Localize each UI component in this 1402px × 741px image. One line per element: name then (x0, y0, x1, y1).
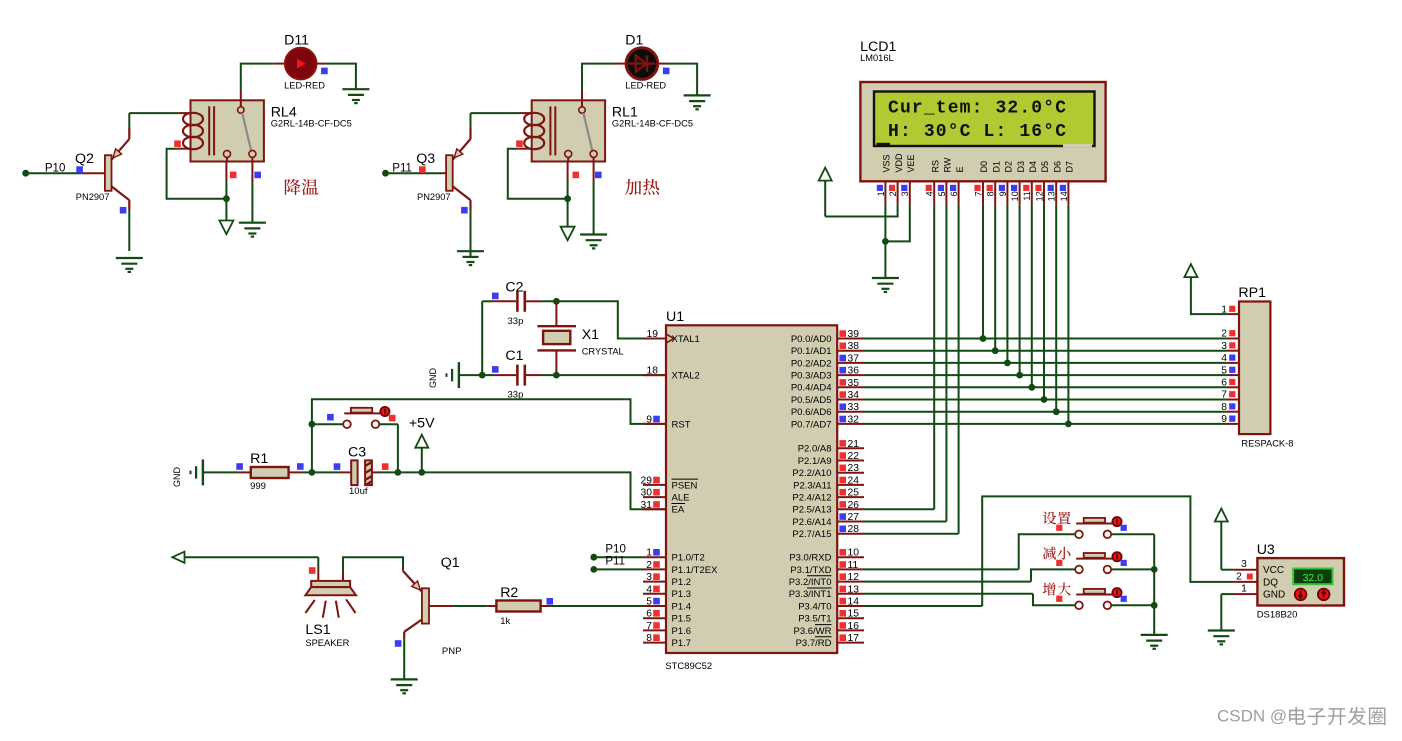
svg-text:P3.5/T1: P3.5/T1 (798, 614, 831, 625)
LS1 labels (305, 622, 349, 648)
wire RL1 contact to junction (567, 162, 569, 227)
svg-text:16: 16 (848, 621, 860, 632)
LCD1 pin 7 D0 (973, 161, 989, 205)
label 增大 (1043, 582, 1056, 595)
svg-text:GND: GND (428, 368, 438, 389)
Q3 base pin square (419, 166, 426, 173)
svg-text:DQ: DQ (1263, 577, 1278, 588)
svg-text:RS: RS (930, 160, 940, 173)
svg-text:P0.0/AD0: P0.0/AD0 (791, 334, 832, 345)
svg-text:12: 12 (1034, 191, 1044, 201)
svg-text:13: 13 (848, 584, 860, 595)
wire Q2 emitter to RL4 coil (129, 113, 190, 128)
LCD1 labels (860, 39, 896, 63)
U1 pin 8 P1.7 (643, 633, 691, 649)
node rail junction 2 (1151, 602, 1158, 609)
ground terminal GND (R1) (172, 459, 203, 487)
wire Q1 collector to ground (403, 639, 405, 680)
ground at U3 (1208, 629, 1235, 631)
wire LCD D6 down (1055, 205, 1057, 412)
svg-text:P1.6: P1.6 (672, 626, 692, 637)
wire buttons common rail (1153, 534, 1155, 635)
U1 pin 32 P0.7/AD7 (791, 414, 864, 430)
U1 pin 16 P3.6/WR (793, 621, 864, 637)
svg-text:STC89C52: STC89C52 (665, 661, 712, 672)
wire C2-left vertical (481, 301, 483, 375)
U1 pin 14 P3.4/T0 (798, 597, 864, 613)
svg-text:RESPACK-8: RESPACK-8 (1241, 439, 1293, 449)
U1 pin 4 P1.3 (643, 584, 691, 600)
U1 pin 5 P1.4 (643, 597, 691, 613)
wire R2 to U1 P1.4 (541, 605, 666, 607)
wire LCD D1 down (994, 205, 996, 351)
svg-text:3: 3 (1221, 341, 1227, 352)
wire P0.7 row (864, 423, 1227, 425)
svg-text:X1: X1 (582, 327, 599, 343)
svg-text:U3: U3 (1257, 542, 1275, 558)
wire RST stub (643, 423, 666, 425)
crystal X1 (537, 301, 576, 375)
svg-text:E: E (955, 166, 965, 172)
svg-text:D5: D5 (1040, 161, 1050, 173)
LCD1 pin 3 VEE (900, 154, 916, 204)
LCD1 pin 14 D7 (1059, 161, 1075, 205)
svg-text:10: 10 (1010, 191, 1020, 201)
wire P10 to Q2 base (26, 172, 105, 174)
svg-text:VSS: VSS (882, 154, 892, 172)
svg-text:LED-RED: LED-RED (625, 81, 666, 91)
svg-text:P1.2: P1.2 (672, 577, 692, 588)
svg-text:9: 9 (998, 191, 1008, 196)
LCD LCD1 (LM016L) body (860, 82, 1105, 181)
node D1/P0.1 junction (992, 347, 999, 354)
svg-text:38: 38 (848, 341, 860, 352)
wire P0.5 row (864, 399, 1227, 401)
U3 pin 1 GND (1233, 584, 1257, 595)
wire D1 to ground (658, 64, 697, 96)
wire GND to C1 (459, 374, 493, 376)
RP1 pin 7 (1221, 390, 1239, 401)
wire button row to RST rail (312, 399, 643, 424)
svg-text:DS18B20: DS18B20 (1257, 610, 1298, 621)
svg-text:1: 1 (876, 191, 886, 196)
svg-text:3: 3 (1241, 559, 1247, 570)
svg-text:4: 4 (646, 584, 652, 595)
svg-text:10: 10 (848, 548, 860, 559)
svg-text:11: 11 (848, 560, 859, 571)
svg-text:37: 37 (848, 353, 860, 364)
LS1 pin square (309, 567, 316, 574)
svg-text:D3: D3 (1016, 161, 1026, 173)
D1 cathode square (663, 68, 670, 75)
ground at Q3 collector (457, 250, 484, 252)
svg-text:3: 3 (900, 191, 910, 196)
svg-text:+5V: +5V (409, 416, 435, 432)
svg-text:19: 19 (647, 329, 659, 340)
U1 pin 10 P3.0/RXD (789, 548, 864, 564)
RP1 pin 9 (1221, 414, 1239, 425)
svg-text:9: 9 (646, 414, 652, 425)
power arrow (U3) (1215, 509, 1233, 570)
ground at D1 (684, 94, 711, 96)
U1 pin 35 P0.4/AD4 (791, 378, 864, 394)
RP1 pin 4 (1221, 353, 1239, 364)
svg-text:P2.3/A11: P2.3/A11 (793, 480, 831, 491)
svg-text:31: 31 (641, 500, 653, 511)
svg-text:CRYSTAL: CRYSTAL (582, 347, 624, 357)
U1 pin 38 P0.1/AD1 (791, 341, 864, 357)
U1 pin 18 XTAL2 (643, 366, 700, 382)
svg-text:7: 7 (973, 191, 983, 196)
node D2/P0.2 junction (1004, 360, 1011, 367)
wire RL4 contact to junction (225, 162, 227, 221)
svg-text:P11: P11 (605, 556, 625, 568)
RL1 NO pin square (595, 172, 602, 179)
X1 labels (582, 327, 624, 357)
wire VSS down (884, 205, 886, 278)
svg-text:26: 26 (848, 500, 860, 511)
ground under RL4 NO contact (239, 222, 266, 224)
svg-text:D6: D6 (1052, 161, 1062, 173)
svg-text:C1: C1 (505, 348, 523, 364)
watermark 电子开发圈 (1289, 707, 1306, 725)
relay RL1 labels (612, 105, 693, 129)
U1 pin 25 P2.4/A12 (792, 488, 864, 504)
LED D1 (LED-RED) (626, 48, 658, 80)
RL1 contact pin square (573, 172, 580, 179)
svg-text:3: 3 (646, 572, 652, 583)
node X1 top junction (553, 298, 560, 305)
node +5V junction (418, 469, 425, 476)
U1 pin 6 P1.5 (643, 609, 691, 625)
svg-text:5: 5 (1221, 365, 1227, 376)
wire into C2 (482, 300, 516, 302)
R1 pin squares (236, 463, 303, 470)
button 增大 (1075, 588, 1121, 609)
U1 pin 3 P1.2 (643, 572, 691, 588)
power +5V (409, 416, 435, 473)
svg-text:D2: D2 (1004, 161, 1014, 173)
LED D11 (LED-RED) (285, 48, 317, 80)
svg-text:RW: RW (943, 157, 953, 172)
wire LS1 to Q1 emitter (343, 557, 403, 581)
node X1 bottom junction (553, 372, 560, 379)
button 减小 (1075, 552, 1121, 573)
svg-text:36: 36 (848, 366, 860, 377)
D11 labels (284, 33, 325, 91)
Q3 collector pin square (461, 207, 468, 214)
svg-text:D0: D0 (979, 161, 989, 173)
svg-text:LS1: LS1 (305, 622, 330, 638)
svg-text:15: 15 (848, 609, 860, 620)
U1 pin 33 P0.6/AD6 (791, 402, 864, 418)
U1 pin 34 P0.5/AD5 (791, 390, 864, 406)
C3 squares (334, 463, 389, 470)
U1 pin 19 XTAL1 (643, 329, 700, 345)
Q2 base pin square (76, 166, 83, 173)
svg-text:5: 5 (937, 191, 947, 196)
svg-text:PN2907: PN2907 (76, 192, 110, 202)
svg-text:P0.4/AD4: P0.4/AD4 (791, 383, 832, 394)
svg-text:P2.6/A14: P2.6/A14 (792, 517, 831, 528)
wire LCD D3 down (1019, 205, 1021, 375)
svg-text:10uf: 10uf (349, 486, 368, 497)
wire Q3 emitter to RL1 coil (471, 113, 532, 128)
svg-text:30: 30 (641, 488, 653, 499)
svg-text:28: 28 (848, 524, 860, 535)
svg-text:7: 7 (1221, 390, 1227, 401)
svg-text:P2.0/A8: P2.0/A8 (798, 444, 832, 455)
C2 pin square (492, 293, 499, 300)
wire P0.0 row (864, 338, 1227, 340)
RP1 pin 3 (1221, 341, 1239, 352)
node P11 (U1 side) (590, 556, 643, 573)
svg-text:PN2907: PN2907 (417, 192, 451, 202)
C1 pin square (492, 366, 499, 373)
U1 pin 37 P0.2/AD2 (791, 353, 864, 369)
transistor Q2 (PN2907) (105, 128, 129, 210)
relay RL1 (524, 100, 605, 161)
svg-text:VDD: VDD (894, 153, 904, 173)
svg-text:GND: GND (1263, 590, 1285, 601)
svg-text:P1.4: P1.4 (672, 601, 692, 612)
svg-text:999: 999 (250, 481, 266, 492)
speaker LS1 (305, 581, 356, 618)
svg-text:ALE: ALE (672, 493, 690, 504)
svg-text:P3.4/T0: P3.4/T0 (798, 601, 831, 612)
wire U3 GND down (1221, 594, 1233, 630)
svg-text:P2.1/A9: P2.1/A9 (798, 456, 832, 467)
svg-text:6: 6 (949, 191, 959, 196)
svg-text:VCC: VCC (1263, 565, 1284, 576)
junction node under RL1 (564, 195, 571, 202)
svg-text:LM016L: LM016L (860, 53, 894, 63)
LCD1 pin 10 D3 (1010, 161, 1026, 205)
node D0/P0.0 junction (980, 335, 987, 342)
wire Q1 base to R2 (429, 605, 496, 607)
wire P0.4 row (864, 386, 1227, 388)
wire P11 to Q3 base (386, 172, 447, 174)
wire C3 to EA rail (372, 472, 666, 509)
ground under RL1 NO contact (580, 233, 607, 235)
RL4 contact pin square (230, 172, 237, 179)
capacitor C3 (10uf) (348, 445, 372, 498)
U1 pin 7 P1.6 (643, 621, 691, 637)
U1 pin 39 P0.0/AD0 (791, 329, 864, 345)
svg-text:25: 25 (848, 488, 860, 499)
wire P0.6 row (864, 411, 1227, 413)
LCD1 pin 4 RS (925, 160, 941, 205)
label 降温 (285, 179, 301, 195)
svg-text:Q3: Q3 (416, 151, 435, 167)
svg-text:C2: C2 (505, 280, 523, 296)
wire RL4 coil- to junction (167, 149, 227, 199)
node D6/P0.6 junction (1053, 408, 1060, 415)
svg-text:P3.0/RXD: P3.0/RXD (789, 553, 831, 564)
svg-text:P0.2/AD2: P0.2/AD2 (791, 358, 832, 369)
svg-text:18: 18 (647, 366, 659, 377)
U3 pin 2 DQ (1233, 571, 1257, 582)
RP1 pin 8 (1221, 402, 1239, 413)
svg-text:11: 11 (1022, 191, 1032, 200)
svg-text:35: 35 (848, 378, 860, 389)
svg-text:33p: 33p (508, 316, 524, 327)
RP1 pin 6 (1221, 378, 1239, 389)
LCD1 pin 11 D4 (1022, 161, 1038, 205)
svg-text:22: 22 (848, 451, 860, 462)
svg-text:XTAL1: XTAL1 (672, 334, 700, 345)
svg-text:23: 23 (848, 463, 860, 474)
svg-text:2: 2 (888, 191, 898, 196)
svg-text:D7: D7 (1065, 161, 1075, 173)
transistor Q3 (PN2907) (446, 128, 470, 210)
U1 pin 15 P3.5/T1 (798, 609, 864, 625)
wire P0.1 row (864, 350, 1227, 352)
node button right junction (395, 469, 402, 476)
arrow ground under RL4 (219, 221, 233, 235)
U1 pin 26 P2.5/A13 (792, 500, 864, 516)
svg-text:P2.5/A13: P2.5/A13 (792, 505, 831, 516)
node P11 (382, 162, 412, 176)
wire P0.2 row (864, 362, 1227, 364)
svg-text:21: 21 (848, 439, 860, 450)
button 设置 (1075, 517, 1121, 538)
svg-text:D1: D1 (625, 33, 643, 49)
node D5/P0.5 junction (1041, 396, 1048, 403)
svg-text:2: 2 (1221, 329, 1227, 340)
terminal arrow (speaker net) (172, 552, 184, 563)
wire RL1 common to D1 (582, 64, 626, 101)
svg-text:1k: 1k (500, 616, 510, 627)
svg-text:G2RL-14B-CF-DC5: G2RL-14B-CF-DC5 (612, 119, 693, 129)
svg-text:14: 14 (1059, 191, 1069, 201)
svg-text:P2.4/A12: P2.4/A12 (792, 493, 831, 504)
label 设置 (1043, 512, 1056, 525)
svg-text:D1: D1 (991, 161, 1001, 173)
wire RL1 NO contact to ground (593, 162, 595, 235)
svg-text:1: 1 (1221, 304, 1227, 315)
svg-text:8: 8 (646, 633, 652, 644)
svg-text:D4: D4 (1028, 161, 1038, 173)
U1 pin 1 P1.0/T2 (643, 548, 705, 564)
wire LCD D0 down (982, 205, 984, 339)
svg-text:14: 14 (848, 597, 860, 608)
node P10 (22, 162, 65, 176)
U1 pin 31 EA (641, 500, 685, 516)
wire GND to R1 (203, 471, 251, 473)
wire P3.4 to U3 DQ (864, 496, 1233, 606)
wire Q2 collector to ground (128, 210, 130, 251)
U1 pin 2 P1.1/T2EX (643, 560, 718, 576)
svg-text:6: 6 (646, 609, 652, 620)
wire P3.2 to 减小 (864, 569, 1075, 581)
LCD1 pin 1 VSS (876, 154, 892, 204)
svg-text:9: 9 (1221, 414, 1227, 425)
svg-text:17: 17 (848, 633, 860, 644)
ground at Q2 collector (116, 257, 143, 259)
svg-text:G2RL-14B-CF-DC5: G2RL-14B-CF-DC5 (271, 119, 352, 129)
node D4/P0.4 junction (1028, 384, 1035, 391)
U1 pin 23 P2.2/A10 (792, 463, 864, 479)
svg-text:P3.7/RD: P3.7/RD (796, 638, 832, 649)
U1 pin 27 P2.6/A14 (792, 512, 864, 528)
svg-text:4: 4 (925, 191, 935, 196)
svg-text:P0.7/AD7: P0.7/AD7 (791, 419, 832, 430)
增大 squares (1056, 596, 1127, 602)
svg-text:CSDN @: CSDN @ (1217, 707, 1287, 726)
wire button right down (379, 424, 398, 472)
U1 pin 13 P3.3/INT1 (789, 584, 864, 600)
node rail junction 1 (1151, 566, 1158, 573)
LCD1 pin 8 D1 (986, 161, 1002, 205)
svg-text:27: 27 (848, 512, 860, 523)
svg-text:8: 8 (1221, 402, 1227, 413)
wire VEE to VSS (885, 205, 909, 242)
Q1 labels (441, 555, 462, 657)
svg-text:XTAL2: XTAL2 (672, 371, 700, 382)
svg-text:13: 13 (1047, 191, 1057, 201)
svg-text:P0.3/AD3: P0.3/AD3 (791, 371, 832, 382)
svg-text:24: 24 (848, 475, 860, 486)
svg-text:VEE: VEE (906, 154, 916, 172)
capacitor C2 (33p) (505, 280, 524, 328)
ground at buttons (1141, 634, 1168, 636)
wire arrow to LS1 (185, 557, 319, 581)
R2 square (547, 598, 554, 605)
node D3/P0.3 junction (1016, 372, 1023, 379)
svg-text:R1: R1 (250, 451, 268, 467)
U1 pin 21 P2.0/A8 (798, 439, 864, 455)
U1 pin 36 P0.3/AD3 (791, 366, 864, 382)
svg-text:SPEAKER: SPEAKER (305, 638, 349, 648)
temperature sensor U3 (DS18B20) (1257, 542, 1344, 621)
ground terminal GND (C1/C2) (428, 362, 459, 388)
wire R1 to C3 (289, 471, 352, 473)
wire D11 to ground (317, 64, 356, 90)
power arrow (RP1) (1184, 264, 1226, 314)
svg-text:P0.5/AD5: P0.5/AD5 (791, 395, 832, 406)
wire 增大 right contact (1111, 604, 1154, 606)
resistor R2 (1k) (496, 585, 540, 627)
svg-text:U1: U1 (666, 309, 684, 325)
U3 pin 3 VCC (1233, 559, 1257, 570)
ground at D11 (342, 88, 369, 90)
svg-text:PSEN: PSEN (672, 480, 698, 491)
svg-text:D11: D11 (284, 33, 309, 49)
svg-text:RP1: RP1 (1238, 285, 1266, 301)
node button left junction (309, 421, 316, 428)
svg-text:32: 32 (848, 414, 860, 425)
U1 pin 30 ALE (641, 488, 690, 504)
button RESET (312, 407, 390, 428)
svg-text:1: 1 (646, 548, 652, 559)
svg-text:P2.7/A15: P2.7/A15 (792, 529, 831, 540)
label 减小 (1043, 547, 1056, 560)
svg-text:12: 12 (848, 572, 860, 583)
svg-text:2: 2 (1236, 571, 1242, 582)
wire C2 to X1 top / XTAL1 (526, 301, 666, 338)
transistor Q1 (PNP) (403, 571, 429, 639)
svg-text:Cur_tem: 32.0°C: Cur_tem: 32.0°C (888, 99, 1066, 119)
node C1/C2 ground junction (479, 372, 486, 379)
wire C1 to XTAL2 (526, 374, 666, 376)
RL4 NO pin square (254, 172, 261, 179)
wire LCD D5 down (1043, 205, 1045, 400)
LCD1 pin 9 D2 (998, 161, 1014, 205)
svg-text:P0.6/AD6: P0.6/AD6 (791, 407, 832, 418)
设置 squares (1056, 525, 1127, 531)
RP1 pin 1 (1221, 304, 1239, 315)
